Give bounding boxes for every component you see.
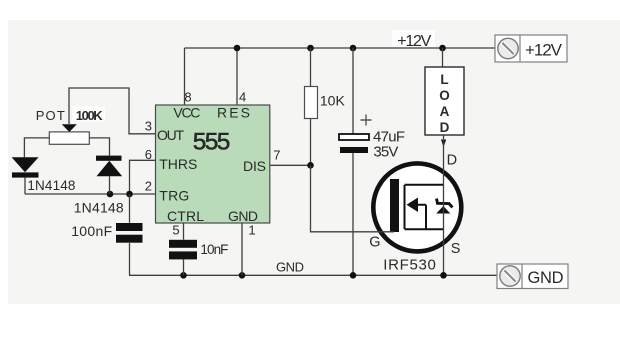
diode D1 1N4148 left <box>12 157 76 194</box>
arrow current into drain <box>441 140 446 148</box>
node junction gnd source <box>440 272 447 279</box>
wire TRG pin2 rail <box>25 193 156 195</box>
svg-text:OUT: OUT <box>157 127 184 143</box>
svg-text:THRS: THRS <box>159 156 197 172</box>
svg-text:IRF530: IRF530 <box>383 257 436 274</box>
node junction DIS gate <box>307 162 314 169</box>
node junction top rail 10K <box>307 45 314 52</box>
svg-text:TRG: TRG <box>159 188 189 204</box>
svg-text:1N4148: 1N4148 <box>27 178 75 193</box>
op-amp U1 555 timer IC <box>156 104 270 224</box>
svg-text:1: 1 <box>248 223 255 238</box>
terminal +12V screw block <box>495 35 567 62</box>
svg-text:D: D <box>440 120 450 135</box>
svg-text:8: 8 <box>184 89 191 104</box>
wire DIS pin7 <box>270 164 311 166</box>
node junction gnd 10nF <box>180 272 187 279</box>
svg-text:+12V: +12V <box>525 40 563 59</box>
capacitor C3 10nF <box>169 223 228 275</box>
svg-text:O: O <box>439 88 450 103</box>
svg-text:100K: 100K <box>76 108 104 123</box>
svg-text:+12V: +12V <box>397 33 431 50</box>
svg-text:3: 3 <box>145 119 152 134</box>
wire GND rail <box>129 274 497 276</box>
svg-text:555: 555 <box>193 128 231 155</box>
svg-text:G: G <box>369 235 380 251</box>
svg-text:10nF: 10nF <box>200 242 228 257</box>
wire gate path <box>311 165 395 232</box>
svg-text:POT: POT <box>36 108 66 123</box>
node junction gnd 47uF <box>350 272 357 279</box>
node junction TRG diode <box>107 191 114 198</box>
wire +12V top rail <box>185 47 496 49</box>
svg-text:DIS: DIS <box>243 158 266 174</box>
svg-text:5: 5 <box>172 223 179 238</box>
svg-text:10K: 10K <box>320 93 346 109</box>
wire GND pin1 <box>241 223 243 275</box>
svg-text:2: 2 <box>145 179 152 194</box>
svg-text:A: A <box>440 104 450 119</box>
svg-text:7: 7 <box>273 147 280 162</box>
wire pin4 vertical <box>236 48 238 105</box>
node junction gnd pin1 <box>239 272 246 279</box>
svg-text:GND: GND <box>528 269 564 287</box>
svg-text:S: S <box>451 241 461 257</box>
wire pin8 vertical <box>184 48 186 105</box>
svg-text:6: 6 <box>145 147 152 162</box>
resistor 10K <box>305 48 346 165</box>
svg-text:RES: RES <box>217 104 250 120</box>
wire OUT pin3 to pot wiper <box>69 88 156 134</box>
svg-text:VCC: VCC <box>173 104 200 120</box>
node junction top rail 47uF <box>350 45 357 52</box>
terminal GND screw block <box>497 264 568 289</box>
capacitor C2 100nF <box>71 194 142 275</box>
wire THRS pin6 <box>130 160 156 194</box>
svg-text:4: 4 <box>239 89 246 104</box>
diode D2 1N4148 right <box>74 156 124 216</box>
wire drain source vertical <box>443 135 445 275</box>
node junction top rail pin4 <box>234 45 241 52</box>
svg-text:1N4148: 1N4148 <box>74 199 124 215</box>
svg-text:35V: 35V <box>373 144 398 161</box>
svg-text:D: D <box>447 153 457 169</box>
svg-text:GND: GND <box>276 260 304 275</box>
net label +12V <box>392 30 435 47</box>
svg-text:L: L <box>440 72 448 87</box>
potentiometer R1 POT 100K <box>24 107 109 158</box>
svg-text:100nF: 100nF <box>71 223 112 239</box>
node junction TRG THRS 100nF <box>126 191 133 198</box>
transistor Q1 IRF530 <box>373 163 461 251</box>
load box <box>425 48 464 135</box>
capacitor C1 47uF 35V <box>339 48 405 275</box>
node junction top rail LOAD <box>439 45 446 52</box>
